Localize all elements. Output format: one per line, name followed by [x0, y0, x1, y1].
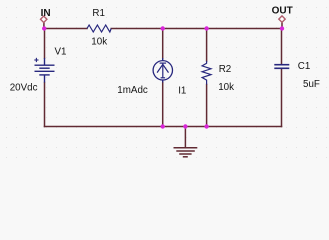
svg-text:OUT: OUT [272, 6, 293, 17]
svg-text:20Vdc: 20Vdc [10, 83, 38, 94]
svg-text:V1: V1 [55, 47, 67, 58]
svg-text:1mAdc: 1mAdc [117, 85, 148, 96]
svg-text:IN: IN [41, 8, 51, 19]
svg-text:C1: C1 [298, 61, 311, 72]
svg-text:10k: 10k [218, 82, 234, 93]
svg-text:5uF: 5uF [303, 79, 320, 90]
svg-text:R2: R2 [219, 64, 232, 75]
svg-text:R1: R1 [92, 8, 105, 19]
svg-text:I1: I1 [178, 86, 186, 97]
svg-text:10k: 10k [91, 36, 107, 47]
